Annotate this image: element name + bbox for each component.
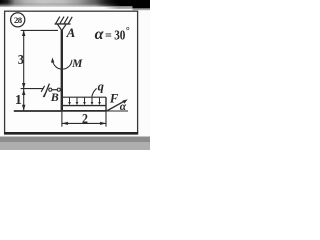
left dimension extension line at B level	[21, 88, 44, 90]
support B link rod	[52, 89, 57, 91]
load arrow 5	[99, 97, 101, 103]
vertical bar of frame	[61, 30, 63, 110]
support A hatching (ceiling)	[55, 17, 73, 25]
beam bottom edge	[61, 110, 107, 112]
dim 2 arrow left	[62, 122, 68, 125]
dim arrow up at A	[22, 30, 25, 36]
q leader line	[92, 88, 97, 96]
beam right end / load right boundary	[105, 97, 107, 111]
angle reference line at F	[107, 110, 128, 112]
dim arrow down at beam level	[22, 105, 25, 111]
svg-text:F: F	[109, 91, 119, 105]
support B pin at wall	[49, 88, 52, 91]
beam top edge	[61, 105, 106, 107]
frame border of diagram box	[5, 11, 138, 133]
svg-text:α: α	[95, 26, 105, 43]
dim arrow down to B level	[22, 83, 25, 89]
vertical dimension line	[23, 30, 25, 110]
dim arrow up from below B level	[22, 89, 25, 95]
svg-text:3: 3	[18, 51, 24, 67]
support B wall hatches	[41, 86, 44, 92]
svg-text:B: B	[50, 90, 59, 104]
svg-text:A: A	[66, 25, 76, 40]
top scan band	[0, 0, 150, 5]
page background	[0, 0, 150, 150]
svg-text:2: 2	[82, 110, 88, 126]
problem number circle 28	[11, 13, 25, 27]
left dimension extension line top (at A level)	[21, 29, 58, 31]
dimension 2 line	[62, 122, 106, 124]
svg-text:°: °	[126, 26, 130, 37]
moment arrowhead	[51, 58, 54, 63]
moment M arc	[53, 59, 72, 69]
load arrow 1	[69, 97, 71, 103]
bottom scan band	[0, 137, 150, 143]
load arrow 4	[91, 97, 93, 103]
load arrow 2	[76, 97, 78, 103]
force F line	[107, 100, 126, 111]
svg-text:q: q	[98, 80, 104, 94]
svg-text:30: 30	[114, 27, 125, 42]
dimension 2: extension lines	[61, 111, 63, 126]
load arrow 3	[84, 97, 86, 103]
svg-text:1: 1	[15, 93, 22, 108]
dim 2 arrow right	[100, 122, 106, 125]
support A pin triangle	[57, 24, 66, 31]
svg-text:M: M	[71, 58, 83, 70]
top-right darker corner of scan band	[96, 0, 150, 6]
support B pin at bar	[57, 88, 60, 91]
support B wall line	[44, 84, 49, 97]
svg-text:α: α	[120, 101, 127, 113]
distributed load top line	[62, 96, 106, 98]
force F arrowhead	[122, 99, 127, 103]
left bottom extension line (beam bottom level)	[14, 110, 61, 112]
svg-text:=: =	[105, 28, 112, 42]
